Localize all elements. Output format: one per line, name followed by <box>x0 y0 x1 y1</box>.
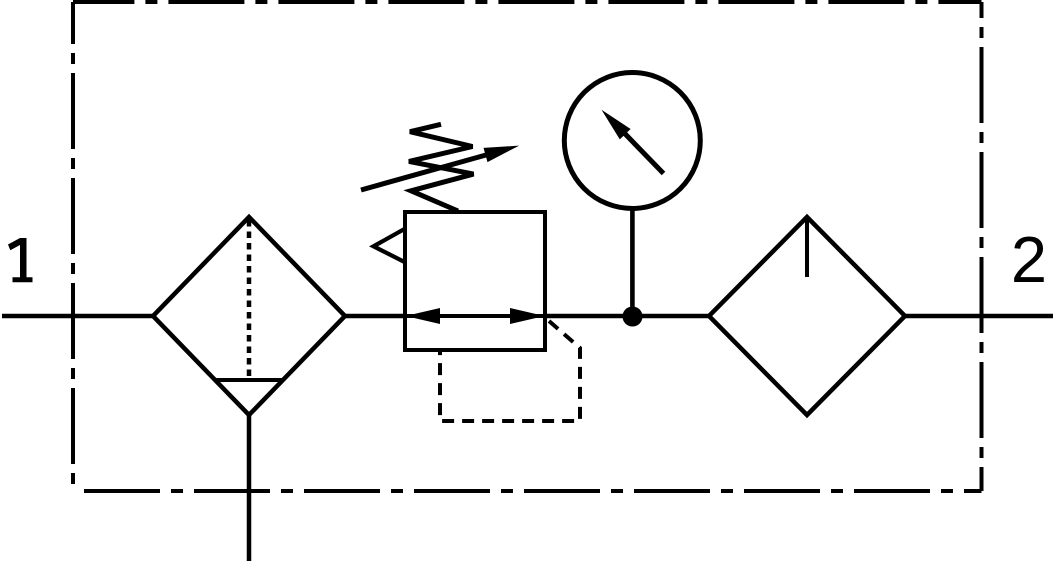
svg-text:2: 2 <box>1011 223 1047 296</box>
